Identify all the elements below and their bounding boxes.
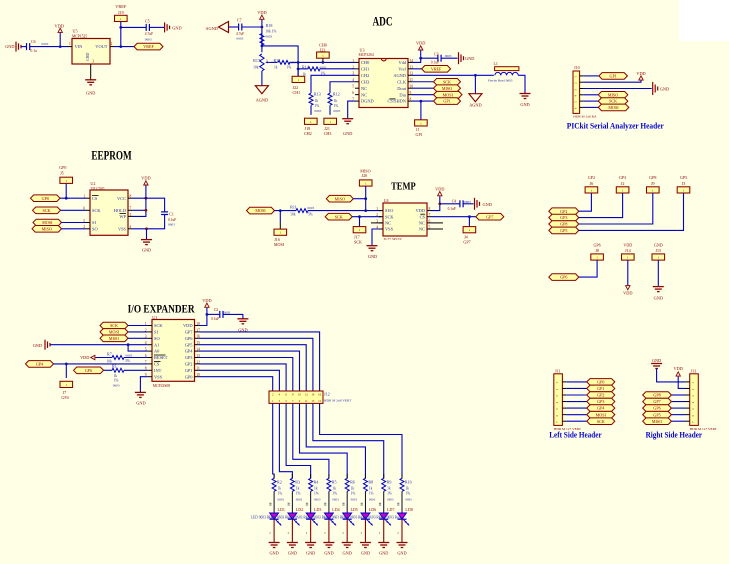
svg-text:1%: 1% xyxy=(351,492,356,496)
svg-text:VDD: VDD xyxy=(415,208,425,213)
svg-text:GP4: GP4 xyxy=(597,406,604,411)
svg-text:1k: 1k xyxy=(114,374,118,378)
svg-text:5%: 5% xyxy=(125,359,130,363)
svg-text:SCK: SCK xyxy=(443,79,451,84)
svg-text:GND: GND xyxy=(379,551,388,556)
svg-text:GP0: GP0 xyxy=(185,374,194,379)
svg-text:J12: J12 xyxy=(324,391,330,396)
svg-text:MISO: MISO xyxy=(608,92,618,97)
svg-text:4.7uF: 4.7uF xyxy=(145,32,153,36)
svg-text:U2: U2 xyxy=(90,181,95,186)
svg-text:0603: 0603 xyxy=(369,497,376,501)
svg-text:NC: NC xyxy=(419,227,425,232)
svg-text:0.1uF: 0.1uF xyxy=(431,60,439,64)
svg-text:GP4: GP4 xyxy=(61,395,68,400)
svg-text:TEMP: TEMP xyxy=(391,182,416,193)
svg-text:I/O EXPANDER: I/O EXPANDER xyxy=(128,302,195,316)
svg-text:SO: SO xyxy=(92,226,98,231)
svg-text:SI: SI xyxy=(92,220,96,225)
svg-text:VIN: VIN xyxy=(75,44,84,49)
svg-text:R3: R3 xyxy=(295,479,300,484)
svg-text:GND: GND xyxy=(652,358,661,363)
svg-text:NC: NC xyxy=(385,221,391,226)
svg-text:9: 9 xyxy=(410,91,412,95)
svg-text:GP5: GP5 xyxy=(653,412,660,417)
svg-text:VDD: VDD xyxy=(80,355,89,360)
svg-text:SCK: SCK xyxy=(335,214,343,219)
svg-text:LD3: LD3 xyxy=(314,507,321,512)
svg-text:0.1uF: 0.1uF xyxy=(168,218,176,222)
svg-text:SCK: SCK xyxy=(597,419,605,424)
svg-text:GP2: GP2 xyxy=(588,175,595,180)
svg-text:1k: 1k xyxy=(274,66,278,70)
svg-text:0603: 0603 xyxy=(145,37,152,41)
svg-text:8: 8 xyxy=(429,207,431,211)
svg-text:J2: J2 xyxy=(621,181,625,186)
svg-text:1%: 1% xyxy=(387,492,392,496)
svg-text:13: 13 xyxy=(311,399,315,403)
svg-text:SI: SI xyxy=(154,330,158,335)
svg-text:1%: 1% xyxy=(334,104,339,108)
svg-text:VREF: VREF xyxy=(143,44,154,49)
svg-text:MISO: MISO xyxy=(442,86,452,91)
svg-text:1k: 1k xyxy=(332,486,336,490)
svg-text:GND: GND xyxy=(269,551,278,556)
svg-text:MOSI: MOSI xyxy=(109,330,120,335)
svg-text:GP8: GP8 xyxy=(653,393,660,398)
svg-text:U5: U5 xyxy=(73,28,78,33)
svg-text:GND: GND xyxy=(483,202,492,207)
svg-text:CS: CS xyxy=(92,196,98,201)
svg-text:J19: J19 xyxy=(118,10,124,15)
svg-text:SCK: SCK xyxy=(609,99,617,104)
svg-text:GP0: GP0 xyxy=(42,196,49,201)
svg-text:MISO: MISO xyxy=(109,336,119,341)
svg-text:VDD: VDD xyxy=(435,186,444,191)
svg-text:10: 10 xyxy=(298,392,302,396)
svg-text:Ferrite Bead 0603: Ferrite Bead 0603 xyxy=(488,79,513,83)
svg-text:C5: C5 xyxy=(145,19,150,23)
svg-text:EEPROM: EEPROM xyxy=(91,149,132,163)
svg-text:VDD: VDD xyxy=(141,176,150,181)
svg-text:GND: GND xyxy=(343,131,352,136)
svg-text:LD8: LD8 xyxy=(405,507,412,512)
svg-text:MOSI: MOSI xyxy=(42,220,53,225)
svg-text:C1: C1 xyxy=(169,212,174,216)
svg-text:CH1: CH1 xyxy=(293,90,301,95)
svg-text:GP3: GP3 xyxy=(597,399,604,404)
svg-text:0.1uF: 0.1uF xyxy=(211,317,219,321)
svg-text:VDD: VDD xyxy=(623,242,632,247)
svg-text:LD6: LD6 xyxy=(369,507,376,512)
svg-text:CS: CS xyxy=(154,362,160,367)
svg-text:0603: 0603 xyxy=(278,497,285,501)
svg-text:LED 0603 Red: LED 0603 Red xyxy=(379,515,401,519)
svg-text:11: 11 xyxy=(305,399,308,403)
svg-text:5: 5 xyxy=(352,85,354,89)
svg-text:1k: 1k xyxy=(315,99,319,103)
svg-text:1%: 1% xyxy=(369,492,374,496)
svg-text:MCP23S08: MCP23S08 xyxy=(153,384,170,388)
svg-text:GND: GND xyxy=(660,86,669,91)
svg-text:GND: GND xyxy=(324,551,333,556)
svg-text:C3: C3 xyxy=(434,52,439,56)
svg-text:GND: GND xyxy=(465,56,474,61)
svg-text:R14: R14 xyxy=(302,64,309,69)
svg-text:VCC: VCC xyxy=(117,196,126,201)
svg-text:MCP3204: MCP3204 xyxy=(359,53,374,57)
svg-text:1: 1 xyxy=(69,42,71,46)
svg-text:J14: J14 xyxy=(625,248,631,253)
svg-text:GND: GND xyxy=(361,551,370,556)
svg-text:VDD: VDD xyxy=(416,41,425,46)
svg-text:VDD: VDD xyxy=(623,291,632,296)
svg-text:GND: GND xyxy=(343,551,352,556)
svg-text:VDD: VDD xyxy=(257,10,266,15)
svg-text:3: 3 xyxy=(130,213,132,217)
svg-text:5%: 5% xyxy=(308,212,313,216)
svg-text:1: 1 xyxy=(83,195,85,199)
svg-text:GND: GND xyxy=(142,248,151,253)
svg-text:LD5: LD5 xyxy=(351,507,358,512)
svg-text:GP6: GP6 xyxy=(85,368,92,373)
svg-text:1%: 1% xyxy=(296,492,301,496)
svg-text:Right Side Header: Right Side Header xyxy=(646,430,703,439)
svg-text:GP5: GP5 xyxy=(185,342,194,347)
svg-text:8: 8 xyxy=(410,98,412,102)
svg-text:Dout: Dout xyxy=(397,86,407,91)
svg-text:AGND: AGND xyxy=(256,98,268,103)
svg-text:0603: 0603 xyxy=(42,42,49,46)
svg-text:1%: 1% xyxy=(332,492,337,496)
svg-text:2: 2 xyxy=(376,213,378,217)
svg-text:GND: GND xyxy=(306,551,315,556)
svg-text:HDR M 2x8 VERT: HDR M 2x8 VERT xyxy=(324,399,352,403)
svg-text:5: 5 xyxy=(429,225,431,229)
svg-text:1k: 1k xyxy=(314,486,318,490)
svg-text:R15: R15 xyxy=(274,58,281,63)
svg-text:VSS: VSS xyxy=(385,227,394,232)
svg-text:GP1: GP1 xyxy=(416,132,423,137)
svg-text:VREF: VREF xyxy=(115,4,127,9)
svg-text:GP6: GP6 xyxy=(560,275,567,280)
svg-text:0.1u: 0.1u xyxy=(31,49,37,53)
svg-text:GP8: GP8 xyxy=(560,222,567,227)
svg-text:GND: GND xyxy=(288,551,297,556)
svg-text:10k: 10k xyxy=(290,212,296,216)
svg-text:VREF: VREF xyxy=(431,66,442,71)
svg-text:GP6: GP6 xyxy=(593,242,600,247)
svg-text:SCK: SCK xyxy=(385,214,394,219)
svg-text:25LC020: 25LC020 xyxy=(90,187,104,191)
svg-text:J15: J15 xyxy=(655,248,661,253)
svg-text:1k: 1k xyxy=(405,486,409,490)
svg-text:Vref: Vref xyxy=(398,66,406,71)
svg-text:4: 4 xyxy=(130,225,132,229)
svg-text:ADC: ADC xyxy=(373,15,393,29)
svg-text:10k: 10k xyxy=(253,66,259,70)
svg-text:GP1: GP1 xyxy=(597,386,604,391)
svg-text:SCK: SCK xyxy=(154,323,163,328)
svg-text:VOUT: VOUT xyxy=(95,44,108,49)
svg-text:GP7: GP7 xyxy=(486,214,493,219)
svg-text:1k: 1k xyxy=(351,486,355,490)
svg-text:GP4: GP4 xyxy=(36,362,43,367)
svg-text:R12: R12 xyxy=(333,92,340,97)
svg-text:GND: GND xyxy=(368,254,377,259)
svg-text:CH2: CH2 xyxy=(361,73,369,78)
svg-text:1%: 1% xyxy=(315,104,320,108)
svg-text:J3: J3 xyxy=(682,181,686,186)
svg-text:R17: R17 xyxy=(253,58,260,63)
svg-text:0603: 0603 xyxy=(387,497,394,501)
svg-text:4.7uF: 4.7uF xyxy=(236,32,244,36)
svg-text:12: 12 xyxy=(305,392,309,396)
svg-text:GP7: GP7 xyxy=(463,240,470,245)
svg-text:R4: R4 xyxy=(314,479,319,484)
svg-text:R2: R2 xyxy=(277,479,282,484)
svg-text:6: 6 xyxy=(352,91,354,95)
svg-text:R13: R13 xyxy=(314,92,321,97)
svg-text:1k: 1k xyxy=(296,486,300,490)
svg-text:VSS: VSS xyxy=(154,374,163,379)
svg-text:0603: 0603 xyxy=(307,206,314,210)
svg-text:0603: 0603 xyxy=(237,36,244,40)
svg-text:GP8: GP8 xyxy=(649,175,656,180)
svg-text:GP7: GP7 xyxy=(185,330,194,335)
svg-text:0603: 0603 xyxy=(265,34,272,38)
svg-text:0603: 0603 xyxy=(320,66,327,70)
svg-text:C7: C7 xyxy=(237,19,242,23)
svg-text:CH3: CH3 xyxy=(361,79,370,84)
svg-text:CH2: CH2 xyxy=(304,131,312,136)
svg-text:AGND: AGND xyxy=(205,26,217,31)
svg-text:LD1: LD1 xyxy=(278,507,285,512)
svg-text:GP3: GP3 xyxy=(560,215,567,220)
svg-text:J11: J11 xyxy=(555,369,561,374)
svg-text:LD7: LD7 xyxy=(387,507,394,512)
svg-text:C6: C6 xyxy=(31,40,36,44)
svg-text:SCK: SCK xyxy=(43,208,51,213)
svg-text:VSS: VSS xyxy=(118,226,127,231)
svg-text:GP3: GP3 xyxy=(619,175,626,180)
svg-text:U4: U4 xyxy=(384,198,389,203)
svg-text:Left Side Header: Left Side Header xyxy=(549,430,602,439)
svg-text:R6: R6 xyxy=(350,479,355,484)
svg-text:J20: J20 xyxy=(362,173,368,178)
svg-text:6: 6 xyxy=(429,219,431,223)
svg-text:GND: GND xyxy=(654,242,663,247)
svg-text:SI/O: SI/O xyxy=(385,208,393,213)
svg-text:MOSI: MOSI xyxy=(443,92,454,97)
svg-text:R8: R8 xyxy=(368,479,373,484)
svg-text:NC: NC xyxy=(419,221,425,226)
svg-text:GND: GND xyxy=(654,295,663,300)
svg-text:L1: L1 xyxy=(494,62,498,66)
svg-text:7: 7 xyxy=(429,213,431,217)
svg-text:R5: R5 xyxy=(332,479,337,484)
svg-text:MISO: MISO xyxy=(42,226,52,231)
svg-text:GP7: GP7 xyxy=(653,399,660,404)
svg-text:MCP1525: MCP1525 xyxy=(72,35,87,39)
svg-text:1%: 1% xyxy=(314,492,319,496)
svg-text:SCK: SCK xyxy=(92,208,101,213)
svg-text:CS/SHDN: CS/SHDN xyxy=(387,99,406,104)
svg-text:SO: SO xyxy=(154,336,160,341)
svg-text:HOLD: HOLD xyxy=(114,208,126,213)
svg-text:R10: R10 xyxy=(405,479,412,484)
svg-text:1%: 1% xyxy=(114,379,119,383)
svg-text:1k: 1k xyxy=(278,486,282,490)
svg-text:0603: 0603 xyxy=(168,223,175,227)
svg-text:16: 16 xyxy=(318,392,322,396)
svg-text:GND: GND xyxy=(33,343,42,348)
svg-text:GP1: GP1 xyxy=(443,99,450,104)
svg-text:R18: R18 xyxy=(266,23,273,28)
svg-text:0603: 0603 xyxy=(289,61,296,65)
svg-text:SCK: SCK xyxy=(354,240,362,245)
svg-text:WP: WP xyxy=(119,214,126,219)
svg-text:1: 1 xyxy=(376,207,378,211)
svg-text:0603: 0603 xyxy=(296,497,303,501)
svg-text:GP6: GP6 xyxy=(185,336,194,341)
svg-text:1%: 1% xyxy=(405,492,410,496)
svg-text:GND: GND xyxy=(5,44,14,49)
svg-text:GND: GND xyxy=(172,25,181,30)
svg-text:NC: NC xyxy=(361,92,367,97)
svg-text:10k: 10k xyxy=(107,359,113,363)
svg-text:0603: 0603 xyxy=(126,353,133,357)
svg-text:7: 7 xyxy=(130,207,132,211)
svg-text:TC77 SP15V: TC77 SP15V xyxy=(383,237,402,241)
svg-text:GP5: GP5 xyxy=(560,228,567,233)
svg-text:0603: 0603 xyxy=(351,497,358,501)
svg-text:CS: CS xyxy=(420,214,426,219)
svg-text:10k 1%: 10k 1% xyxy=(265,30,276,34)
svg-text:GP1: GP1 xyxy=(185,368,193,373)
svg-text:GP2: GP2 xyxy=(560,209,567,214)
svg-text:GP4: GP4 xyxy=(185,349,194,354)
svg-text:A1: A1 xyxy=(154,342,159,347)
svg-text:J9: J9 xyxy=(651,181,655,186)
svg-text:VDD: VDD xyxy=(55,23,64,28)
svg-text:0603: 0603 xyxy=(315,109,322,113)
svg-text:MOSI: MOSI xyxy=(596,412,607,417)
svg-text:MOSI: MOSI xyxy=(255,208,266,213)
svg-text:VDD: VDD xyxy=(183,323,193,328)
svg-text:1k: 1k xyxy=(387,486,391,490)
svg-text:CH0: CH0 xyxy=(361,60,370,65)
svg-text:1k: 1k xyxy=(369,486,373,490)
svg-text:GP0: GP0 xyxy=(59,165,66,170)
svg-text:C2: C2 xyxy=(214,308,219,312)
svg-text:Vdd: Vdd xyxy=(398,60,406,65)
svg-text:J13: J13 xyxy=(691,369,697,374)
svg-text:NC: NC xyxy=(361,86,367,91)
svg-text:GP2: GP2 xyxy=(185,362,193,367)
svg-text:0.1uF: 0.1uF xyxy=(448,207,456,211)
svg-text:0603: 0603 xyxy=(334,109,341,113)
svg-text:J5: J5 xyxy=(60,171,64,176)
svg-text:GP2: GP2 xyxy=(597,393,604,398)
svg-text:1%: 1% xyxy=(287,66,292,70)
svg-text:R7: R7 xyxy=(107,351,112,356)
svg-text:GP5: GP5 xyxy=(680,175,687,180)
svg-text:0603: 0603 xyxy=(113,383,120,387)
svg-text:8: 8 xyxy=(130,195,132,199)
svg-text:GND: GND xyxy=(397,551,406,556)
svg-text:DGND: DGND xyxy=(361,99,374,104)
svg-text:Din: Din xyxy=(399,92,406,97)
svg-text:AGND: AGND xyxy=(393,73,406,78)
svg-text:GP1: GP1 xyxy=(610,74,617,79)
svg-text:J8: J8 xyxy=(595,248,599,253)
svg-text:MOSI: MOSI xyxy=(608,105,619,110)
svg-text:0603: 0603 xyxy=(405,497,412,501)
svg-text:HDR M 1x6 RA: HDR M 1x6 RA xyxy=(573,115,597,119)
svg-text:3: 3 xyxy=(92,60,94,64)
svg-text:GP0: GP0 xyxy=(597,380,604,385)
svg-text:LD2: LD2 xyxy=(296,507,303,512)
svg-text:1%: 1% xyxy=(278,492,283,496)
svg-text:CLK: CLK xyxy=(397,79,407,84)
svg-text:1k: 1k xyxy=(334,99,338,103)
svg-text:0603: 0603 xyxy=(445,54,452,58)
svg-text:0603: 0603 xyxy=(314,497,321,501)
svg-text:U3: U3 xyxy=(360,47,365,52)
svg-text:U1: U1 xyxy=(152,315,157,320)
svg-text:MISO: MISO xyxy=(652,419,662,424)
svg-text:A0: A0 xyxy=(154,349,160,354)
svg-text:GND: GND xyxy=(86,91,95,96)
svg-text:GP3: GP3 xyxy=(185,355,194,360)
svg-text:AGND: AGND xyxy=(469,102,481,107)
svg-text:RESET: RESET xyxy=(154,355,168,360)
svg-text:GND: GND xyxy=(136,401,145,406)
svg-text:R11: R11 xyxy=(290,204,297,209)
svg-text:14: 14 xyxy=(311,392,315,396)
svg-text:0603: 0603 xyxy=(332,497,339,501)
svg-text:R1: R1 xyxy=(112,364,117,369)
svg-text:LD4: LD4 xyxy=(332,507,339,512)
svg-text:2: 2 xyxy=(111,42,113,46)
svg-text:15: 15 xyxy=(318,399,322,403)
svg-text:J6: J6 xyxy=(590,181,594,186)
svg-text:INT: INT xyxy=(154,368,162,373)
svg-text:R9: R9 xyxy=(387,479,392,484)
svg-text:GND: GND xyxy=(86,53,90,61)
svg-text:C4: C4 xyxy=(452,200,457,204)
svg-text:MISO: MISO xyxy=(335,196,345,201)
svg-text:SCK: SCK xyxy=(110,323,118,328)
svg-text:VDD: VDD xyxy=(636,71,645,76)
svg-text:MOSI: MOSI xyxy=(274,242,285,247)
svg-text:GND: GND xyxy=(520,102,529,107)
svg-text:VDD: VDD xyxy=(674,366,683,371)
svg-text:GP6: GP6 xyxy=(653,406,660,411)
svg-text:VDD: VDD xyxy=(202,298,211,303)
svg-text:CH3: CH3 xyxy=(324,131,332,136)
svg-text:J10: J10 xyxy=(574,65,580,70)
svg-text:PICkit Serial Analyzer Head: PICkit Serial Analyzer Header xyxy=(567,122,664,131)
svg-text:CH1: CH1 xyxy=(361,66,369,71)
